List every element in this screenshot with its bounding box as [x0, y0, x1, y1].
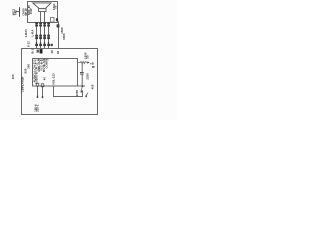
svg-text:VOL-123: VOL-123 [52, 73, 56, 85]
svg-text:300: 300 [11, 74, 15, 79]
svg-text:1-RA5: 1-RA5 [24, 29, 28, 38]
svg-text:48: 48 [56, 50, 60, 54]
svg-text:L-RA: L-RA [30, 30, 34, 37]
svg-text:220-1: 220-1 [36, 104, 40, 112]
svg-text:45: 45 [42, 77, 46, 81]
svg-text:1500: 1500 [60, 27, 64, 34]
svg-text:2200: 2200 [75, 90, 79, 97]
svg-text:CDPLAYER: CDPLAYER [20, 77, 24, 93]
svg-text:0000: 0000 [62, 33, 66, 40]
svg-text:B-1: B-1 [31, 48, 35, 53]
svg-text:300: 300 [27, 63, 31, 68]
svg-text:15W: 15W [29, 8, 33, 14]
svg-text:ANT: ANT [14, 9, 18, 15]
svg-text:50: 50 [85, 55, 89, 59]
svg-text:50: 50 [54, 5, 58, 9]
svg-text:8-12: 8-12 [27, 41, 31, 47]
svg-text:2200: 2200 [85, 73, 89, 80]
svg-text:48: 48 [50, 50, 54, 54]
svg-text:450: 450 [90, 84, 94, 89]
svg-text:PLAYER AUDIO CCT: PLAYER AUDIO CCT [33, 59, 49, 62]
